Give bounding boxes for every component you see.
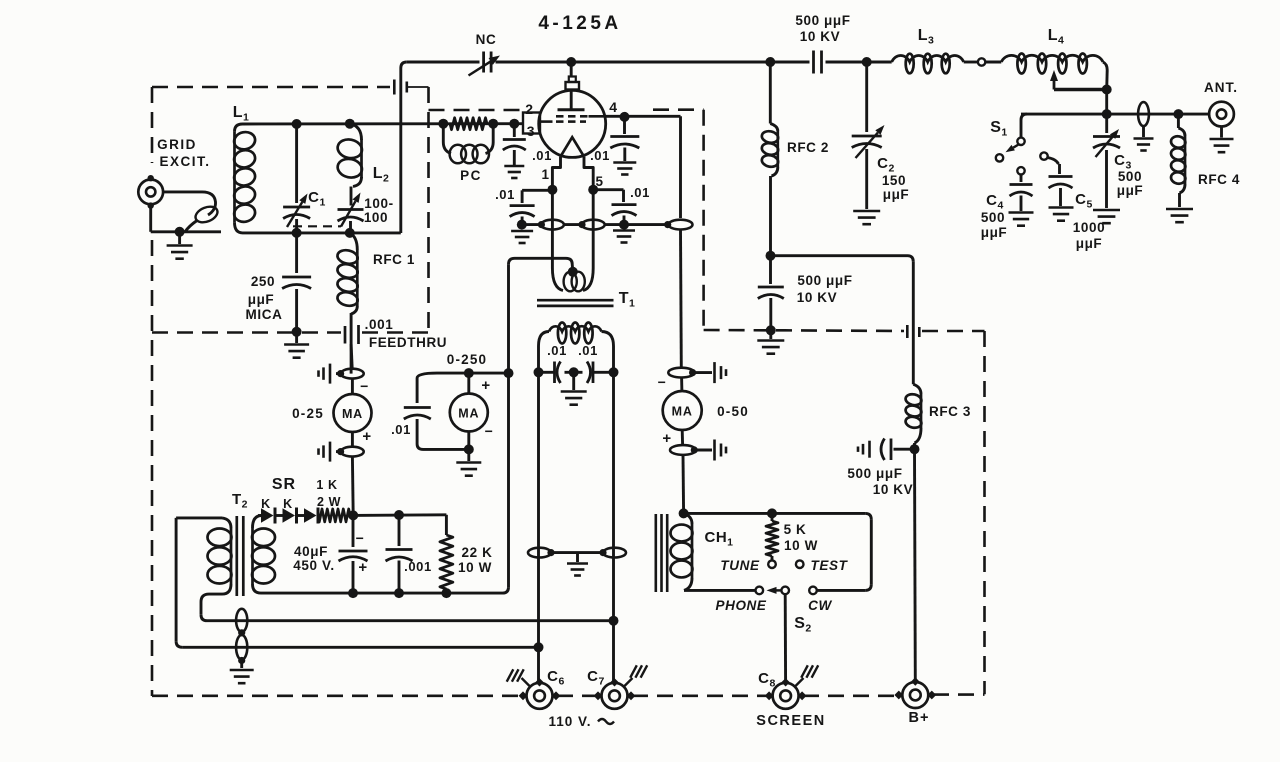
svg-text:150: 150 (882, 173, 906, 188)
svg-text:−: − (485, 423, 494, 439)
wire tank top (243, 122, 524, 125)
svg-text:PHONE: PHONE (715, 598, 766, 613)
capacitor C1 variable (295, 124, 298, 203)
dashed chassis line left (152, 331, 341, 334)
svg-text:B+: B+ (909, 710, 930, 726)
connector C6 110V terminal (527, 683, 553, 709)
svg-text:μμF: μμF (1117, 183, 1144, 198)
svg-text:L2: L2 (373, 165, 390, 185)
svg-text:ANT.: ANT. (1204, 80, 1238, 95)
node mica ground junction (292, 327, 302, 337)
svg-text:+: + (362, 428, 371, 445)
svg-text:.01: .01 (391, 422, 411, 437)
feedthru oval screen meter minus (668, 368, 694, 378)
svg-text:.01: .01 (630, 185, 650, 200)
node pin5 cap junction (619, 220, 629, 230)
node RFC4 top (1173, 109, 1183, 119)
node screen bypass ground (766, 325, 776, 335)
capacitor C2 variable (865, 62, 868, 132)
svg-text:2: 2 (525, 101, 533, 117)
wire bias rail (353, 513, 446, 517)
svg-text:T2: T2 (232, 491, 248, 511)
capacitor C3 variable (1105, 114, 1108, 133)
tube plate cap (570, 62, 573, 78)
feedthru oval meter minus (351, 344, 352, 369)
svg-text:K: K (261, 497, 271, 511)
svg-text:.01: .01 (532, 148, 552, 163)
capacitor .001 (398, 515, 401, 546)
contact TEST (796, 560, 804, 568)
node C1 bottom (292, 228, 302, 238)
svg-text:2 W: 2 W (317, 495, 341, 509)
svg-text:CW: CW (808, 598, 832, 613)
capacitor .01 pin1 bypass (522, 189, 552, 192)
svg-text:500 μμF: 500 μμF (797, 273, 852, 288)
inductor L4 (1001, 55, 1103, 62)
node 22K bottom (441, 588, 451, 598)
inductor RFC2 (769, 62, 772, 124)
node C2 top junction (862, 57, 872, 67)
svg-text:.01: .01 (590, 148, 610, 163)
feedthru oval screen line (664, 221, 671, 228)
wire T1 left leg down (537, 372, 540, 683)
inductor RFC1 (350, 233, 358, 250)
node 110V-C6 junction (534, 642, 544, 652)
resistor 5K 10W (771, 513, 774, 521)
dashed right edge (983, 331, 986, 694)
node plate top junction (566, 57, 576, 67)
node plate return junction (504, 368, 514, 378)
inductor CH1 choke (654, 514, 657, 592)
node L2 bottom (345, 228, 355, 238)
svg-text:22 K: 22 K (462, 545, 493, 560)
svg-text:L4: L4 (1048, 27, 1065, 47)
wire 110V line lower (182, 646, 538, 649)
capacitor .01 .01 line bypass pair (539, 371, 555, 374)
svg-text:500 μμF: 500 μμF (847, 466, 902, 481)
svg-text:L1: L1 (233, 104, 250, 124)
svg-text:10 W: 10 W (458, 560, 492, 575)
svg-text:10 KV: 10 KV (797, 290, 838, 305)
svg-text:C1: C1 (308, 189, 326, 209)
inductor L2 (350, 124, 362, 140)
svg-text:FEEDTHRU: FEEDTHRU (369, 335, 447, 350)
resistor-choke PC (438, 119, 448, 129)
svg-text:C6: C6 (547, 668, 565, 688)
svg-text:10 KV: 10 KV (800, 29, 841, 44)
svg-text:C5: C5 (1075, 191, 1093, 211)
svg-text:0-50: 0-50 (717, 404, 749, 419)
wire L4 right end down (1103, 62, 1107, 70)
svg-text:100-: 100- (364, 196, 393, 211)
switch S1 (1021, 114, 1027, 120)
capacitor .01 meter bypass (404, 406, 431, 409)
transformer T2 core (235, 516, 238, 596)
node RFC2 bottom (766, 251, 776, 261)
svg-text:μμF: μμF (248, 292, 275, 307)
svg-text:RFC 2: RFC 2 (787, 140, 829, 155)
svg-text:500: 500 (1118, 169, 1142, 184)
svg-text:0-250: 0-250 (447, 352, 488, 367)
inductor L3 (892, 56, 964, 62)
svg-text:CH1: CH1 (704, 529, 733, 549)
svg-text:SCREEN: SCREEN (756, 713, 825, 729)
svg-text:RFC 1: RFC 1 (373, 252, 415, 267)
ground mica (295, 332, 298, 343)
svg-text:250: 250 (251, 274, 275, 289)
svg-text:.001: .001 (404, 559, 432, 574)
svg-text:C7: C7 (587, 668, 605, 688)
wire L4 tap (1054, 88, 1107, 91)
svg-text:+: + (358, 559, 367, 576)
node T1 right leg (609, 367, 619, 377)
svg-text:S2: S2 (794, 615, 812, 635)
dashed tube compartment right edge (702, 110, 705, 330)
svg-text:TEST: TEST (811, 558, 849, 573)
tube filament (561, 137, 585, 156)
svg-text:450 V.: 450 V. (293, 558, 334, 573)
svg-text:C4: C4 (986, 192, 1004, 212)
capacitor C5 (1040, 152, 1047, 159)
node L4 tap junction (1102, 85, 1112, 95)
svg-text:PC: PC (460, 168, 482, 183)
svg-text:.01: .01 (578, 343, 598, 358)
wire bypass row (522, 223, 541, 226)
transformer T2 secondary (253, 516, 262, 529)
feedthru .001 bars (344, 326, 347, 344)
svg-text:−: − (360, 378, 369, 394)
feedthru plate line shield crossing (393, 80, 396, 95)
wire plate meter loop (437, 372, 509, 375)
capacitor .01 screen bypass (623, 117, 626, 134)
svg-text:S1: S1 (990, 119, 1008, 139)
wire T1 right leg down (612, 372, 615, 683)
wire CH1 bottom to S2 (684, 589, 755, 592)
dashed chassis line right (704, 329, 766, 332)
node plate meter ground (464, 444, 474, 454)
svg-text:−: − (658, 374, 667, 390)
wire pin4 screen (605, 115, 681, 118)
node T1 left leg (534, 367, 544, 377)
node input ground junction (175, 227, 185, 237)
feedthru RFC3 shield crossing (906, 325, 909, 338)
svg-text:μμF: μμF (981, 225, 1008, 240)
switch S2 (756, 587, 764, 595)
svg-text:μμF: μμF (1076, 236, 1103, 251)
node RFC2 top junction (765, 57, 775, 67)
capacitor 100-100 variable (350, 187, 353, 206)
svg-text:.001: .001 (365, 317, 394, 332)
node 5K top (767, 508, 777, 518)
svg-text:5 K: 5 K (784, 522, 807, 537)
ground input (178, 232, 181, 244)
svg-text:SR: SR (272, 476, 296, 493)
svg-text:500 μμF: 500 μμF (795, 13, 850, 28)
svg-text:0-25: 0-25 (292, 406, 324, 421)
svg-text:1: 1 (541, 167, 549, 182)
wire RFC2 to RFC3 line (771, 254, 908, 257)
svg-text:MA: MA (672, 405, 693, 419)
dashed grid box right edge (427, 87, 430, 333)
node pin4 cap junction (620, 112, 630, 122)
svg-text:40μF: 40μF (294, 544, 328, 559)
capacitor 40uF 450V (352, 515, 355, 547)
capacitor .01 pin5 bypass (593, 188, 623, 191)
wire plate top line (399, 68, 402, 233)
svg-text:+: + (481, 377, 490, 394)
transformer T1 primary filament winding (551, 190, 554, 268)
feedthru ovals 110V line (528, 548, 551, 558)
inductor RFC3 (913, 384, 921, 394)
node L3-L4 tap (964, 61, 978, 64)
svg-text:GRID: GRID (157, 137, 197, 152)
inductor RFC4 (1177, 114, 1180, 128)
connector B+ terminal (902, 682, 928, 708)
tube plate (570, 90, 573, 110)
resistor 22K 10W (445, 515, 448, 535)
node L2 top (345, 119, 355, 129)
node antenna line junction (1102, 109, 1112, 119)
wire meter to bias junction (351, 457, 355, 516)
dashed tube compartment top right (653, 108, 704, 111)
transformer T1 secondary winding (539, 332, 550, 373)
svg-text:RFC 4: RFC 4 (1198, 172, 1240, 187)
node T1 bypass center (569, 367, 579, 377)
svg-text:10 W: 10 W (784, 538, 818, 553)
hash C8 chassis (794, 678, 804, 688)
svg-text:3: 3 (527, 123, 535, 139)
feedthru oval pin5 (578, 221, 585, 228)
hash C6 chassis (522, 678, 532, 688)
feedthru oval pin1 (538, 221, 545, 228)
meter MA 0-25 (351, 379, 354, 395)
svg-text:10 KV: 10 KV (873, 482, 914, 497)
svg-text:MA: MA (342, 407, 363, 421)
transformer T2 primary (176, 516, 222, 519)
inductor L1 (235, 124, 243, 132)
wire tank bottom (243, 231, 401, 234)
svg-text:.01: .01 (547, 343, 567, 358)
meter MA 0-50 (680, 378, 683, 392)
node .001 bottom (394, 588, 404, 598)
svg-text:EXCIT.: EXCIT. (159, 154, 210, 169)
meter MA 0-250 (464, 368, 474, 378)
feedthru oval meter plus (341, 447, 364, 457)
svg-text:.01: .01 (495, 187, 515, 202)
wire antenna line (1021, 113, 1209, 116)
capacitor .01 grid bypass (509, 119, 519, 129)
dashed gang link C1-100 (293, 225, 341, 227)
svg-text:μμF: μμF (883, 187, 910, 202)
svg-text:−: − (356, 530, 365, 546)
svg-text:500: 500 (981, 210, 1005, 225)
svg-text:1 K: 1 K (316, 478, 337, 492)
wire RFC3 to B+ (913, 449, 917, 682)
node 40uF bottom (348, 588, 358, 598)
tube grid pin shield box (523, 113, 540, 134)
connector GRID EXCIT input jack (138, 180, 163, 205)
dashed shield top edge (152, 86, 390, 89)
hash C7 chassis (623, 678, 633, 688)
svg-text:+: + (662, 430, 671, 447)
svg-text:MA: MA (458, 407, 479, 421)
svg-text:C8: C8 (758, 670, 776, 690)
svg-text:110 V.: 110 V. (548, 714, 591, 729)
capacitor C4 (1017, 167, 1024, 174)
svg-text:C2: C2 (877, 155, 895, 175)
svg-text:100: 100 (364, 210, 388, 225)
resistor 1K 2W (317, 514, 320, 517)
dashed tube compartment top left (429, 109, 522, 112)
wire screen line to meter (679, 230, 683, 369)
capacitor 500uuF 10KV screen bypass (769, 256, 772, 284)
tube screen grid dashes (556, 115, 564, 118)
node pin5 (588, 185, 598, 195)
svg-text:4-125A: 4-125A (538, 13, 621, 34)
node pin1 (547, 185, 557, 195)
svg-text:4: 4 (609, 99, 617, 115)
wire screen network top (684, 512, 866, 515)
svg-text:1000: 1000 (1073, 220, 1105, 235)
feedthru ovals T2 lines (236, 609, 247, 632)
wire 110V line upper (207, 619, 614, 622)
connector C7 110V terminal (602, 683, 628, 709)
node T1 center tap (568, 267, 578, 277)
connector ANT output (1209, 102, 1234, 127)
wire filament legs (552, 157, 560, 190)
tube V1 4-125A envelope (539, 90, 606, 157)
wire center tap to meter line (566, 258, 573, 272)
svg-text:NC: NC (476, 32, 497, 47)
capacitor 500uuF 10KV plate bypass (894, 448, 915, 451)
transformer T1 core (537, 299, 614, 302)
feedthru oval screen meter plus (670, 445, 696, 455)
dashed shield left edge (151, 87, 154, 163)
connector C8 screen terminal (773, 683, 799, 709)
svg-text:TUNE: TUNE (720, 558, 760, 573)
rectifier SR selenium diodes (258, 514, 262, 517)
svg-text:T1: T1 (619, 290, 636, 310)
svg-text:MICA: MICA (246, 307, 283, 322)
node RFC3 bottom (910, 444, 920, 454)
wire RFC1 to feedthru (350, 313, 353, 374)
node CH1 top (679, 508, 689, 518)
svg-text:L3: L3 (918, 27, 935, 47)
dashed bottom edge (152, 694, 522, 697)
tube control grid dashes (540, 120, 553, 123)
capacitor NC (neutralizing) (482, 52, 485, 73)
svg-text:K: K (283, 497, 293, 511)
wire input link loop (163, 190, 202, 193)
feedthru oval antenna line (1138, 102, 1149, 126)
node .001 top (394, 510, 404, 520)
wire S2 pole to C8 (784, 594, 787, 682)
wire bias bottom rail (261, 592, 503, 595)
node 110V-C7 junction (609, 616, 619, 626)
capacitor 500uuF 10KV blocking (812, 51, 815, 74)
node bias junction (348, 510, 358, 520)
svg-text:RFC 3: RFC 3 (929, 404, 971, 419)
wire T2 primary left leg (175, 518, 178, 641)
node pin1 cap junction (517, 220, 527, 230)
capacitor 250uuF MICA (295, 233, 298, 273)
node C1 top (292, 119, 302, 129)
